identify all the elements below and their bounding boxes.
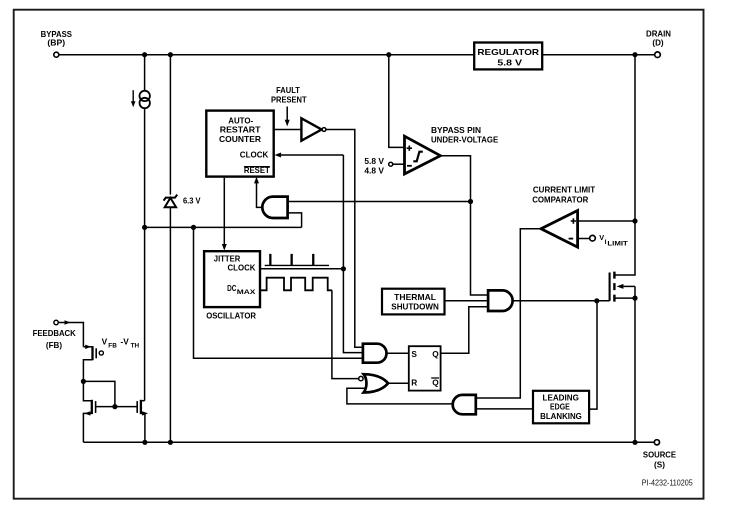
wire gate drive AND output to MOSFET gate (513, 300, 610, 302)
transistor Q1 feedback sense (PMOS) (83, 345, 103, 382)
junction drain line / comparator (632, 218, 637, 223)
svg-text:5.8 V: 5.8 V (364, 156, 384, 166)
svg-text:5.8 V: 5.8 V (497, 57, 522, 67)
junction y227 wire / S-AND feed (191, 225, 196, 230)
wire reset AND output to RESET input (arrow up) (254, 177, 262, 208)
svg-text:LIMIT: LIMIT (607, 241, 627, 248)
net label FAULT PRESENT with arrow (271, 85, 307, 127)
wire FB terminal to sense transistor (arrow) (58, 320, 83, 347)
svg-text:UNDER-VOLTAGE: UNDER-VOLTAGE (431, 134, 499, 144)
svg-text:PI-4232-110205: PI-4232-110205 (642, 478, 693, 487)
junction UV output / reset AND wire (468, 199, 473, 204)
latch SR flip-flop (409, 346, 441, 390)
3-input and gate (latch set) (363, 344, 387, 363)
svg-text:PRESENT: PRESENT (271, 94, 307, 104)
svg-text:CLOCK: CLOCK (228, 263, 256, 273)
terminal DRAIN (D) (646, 28, 671, 57)
wire comparator + input from drain sense (578, 220, 635, 222)
svg-text:FAULT: FAULT (276, 85, 300, 95)
wire latch Q to gate-drive AND (441, 307, 489, 354)
wire MOSFET source to bottom rail (634, 298, 636, 442)
wire mirror gate link (96, 406, 138, 408)
figure number PI-4232-110205 (642, 478, 693, 487)
svg-text:(D): (D) (652, 38, 663, 48)
wire DCMAX to OR gate bubble (332, 290, 359, 378)
svg-text:FEEDBACK: FEEDBACK (33, 328, 77, 338)
junction BP/zener (168, 52, 173, 57)
leading edge blanking block (533, 391, 589, 424)
svg-text:TH: TH (131, 342, 140, 349)
wire LEB-AND output to OR bottom input (347, 388, 453, 404)
inverter (fault present) (301, 118, 326, 140)
junction current-source line / y227 wire (142, 225, 147, 230)
svg-text:FB: FB (108, 342, 117, 349)
regulator 5.8 V (474, 43, 542, 70)
output MOSFET (610, 272, 635, 302)
svg-text:OSCILLATOR: OSCILLATOR (206, 311, 256, 321)
svg-text:6.3 V: 6.3 V (183, 196, 201, 206)
dcmax waveform (260, 278, 332, 291)
current limit comparator (532, 185, 595, 247)
svg-text:4.8 V: 4.8 V (364, 166, 384, 176)
transistor Q2 mirror left (NMOS) (83, 381, 95, 442)
svg-text:Q: Q (432, 377, 439, 387)
junction rail/UV comparator input (386, 52, 391, 57)
clock waveform (265, 255, 329, 266)
svg-text:V: V (599, 233, 604, 242)
terminal SOURCE (S) (643, 440, 676, 470)
wire thermal shutdown to AND (445, 300, 489, 302)
wire auto-restart to inverter (274, 129, 302, 131)
wire OR output to latch R (388, 382, 409, 384)
svg-text:CURRENT LIMIT: CURRENT LIMIT (533, 185, 595, 195)
svg-text:(BP): (BP) (47, 38, 65, 48)
junction BP/current-source (142, 52, 147, 57)
current source IFB (131, 57, 150, 108)
wire reset AND bottom input (288, 213, 302, 228)
wire arrow auto-restart to oscillator (222, 178, 227, 251)
svg-text:BLANKING: BLANKING (540, 411, 582, 421)
svg-text:R: R (411, 377, 417, 387)
junction Q1 drain / mirror gate feed (81, 379, 86, 384)
reference VILIMIT terminal (578, 233, 628, 248)
junction clock wire (341, 266, 346, 271)
junction source rail (632, 440, 637, 445)
junction mirror gates (112, 404, 117, 409)
junction rail/zener (168, 440, 173, 445)
wire comparator output to LEB-AND top input (476, 229, 541, 398)
wire to 3-input AND bottom input (194, 227, 363, 358)
svg-text:(FB): (FB) (46, 340, 62, 350)
svg-text:MAX: MAX (237, 289, 257, 296)
wire clock net (to auto-restart CLOCK input, arrowhead) (275, 153, 363, 353)
wire reset AND top input from UV comparator (288, 201, 471, 203)
svg-text:EDGE: EDGE (550, 402, 570, 412)
wire S-AND output to latch S (387, 352, 409, 354)
and gate (current limit / LEB, points left) (453, 395, 476, 414)
svg-text:-V: -V (121, 337, 130, 347)
svg-text:SOURCE: SOURCE (643, 449, 676, 459)
svg-text:S: S (411, 349, 417, 359)
and gate (gate drive) (488, 290, 512, 311)
reference 5.8V/4.8V input terminal (364, 156, 404, 176)
wire bottom source rail (83, 441, 654, 443)
wire inverter output to 3-input AND top (326, 130, 363, 348)
label VFB - VTH (102, 337, 140, 350)
svg-text:I: I (605, 239, 607, 246)
svg-text:DC: DC (227, 283, 236, 293)
svg-text:Q: Q (432, 349, 439, 359)
svg-text:COUNTER: COUNTER (219, 134, 261, 144)
oscillator block (204, 251, 260, 320)
or gate (latch reset) (359, 374, 388, 392)
wire current source to feedback mirror (144, 108, 146, 401)
transistor Q3 mirror right (NMOS) (137, 400, 148, 443)
wire LEB input from gate node (589, 301, 597, 409)
junction rail/drain line (632, 52, 637, 57)
wire top rail (regulator to drain) (542, 54, 654, 56)
wire BP rail (BP terminal to regulator) (59, 54, 474, 56)
wire mirror gate feed (83, 381, 115, 406)
svg-text:SHUTDOWN: SHUTDOWN (391, 301, 439, 311)
svg-text:V: V (102, 337, 108, 347)
and gate (auto-restart reset) (262, 197, 287, 218)
terminal FEEDBACK (FB) (33, 320, 77, 350)
svg-text:(S): (S) (654, 459, 665, 469)
wire drain vertical (614, 57, 635, 275)
bypass pin under-voltage comparator (405, 125, 499, 174)
junction rail/Q3 (142, 440, 147, 445)
terminal BYPASS (BP) (41, 29, 73, 57)
wire bypass node to reset AND (y=227) (145, 226, 302, 228)
svg-text:CLOCK: CLOCK (240, 150, 269, 160)
thermal shutdown block (382, 289, 445, 315)
zener diode 6.3 V (164, 57, 201, 440)
junction gate node / LEB feed (594, 298, 599, 303)
junction MOSFET source/body (632, 296, 637, 301)
svg-text:REGULATOR: REGULATOR (477, 47, 539, 57)
svg-text:COMPARATOR: COMPARATOR (532, 195, 588, 205)
auto-restart counter block (206, 111, 273, 177)
wire rail to UV + input (389, 57, 405, 147)
wire UV comparator output (440, 156, 488, 295)
wire oscillator CLOCK output (260, 268, 343, 270)
wire LEB block to LEB-AND bottom input (476, 408, 533, 410)
